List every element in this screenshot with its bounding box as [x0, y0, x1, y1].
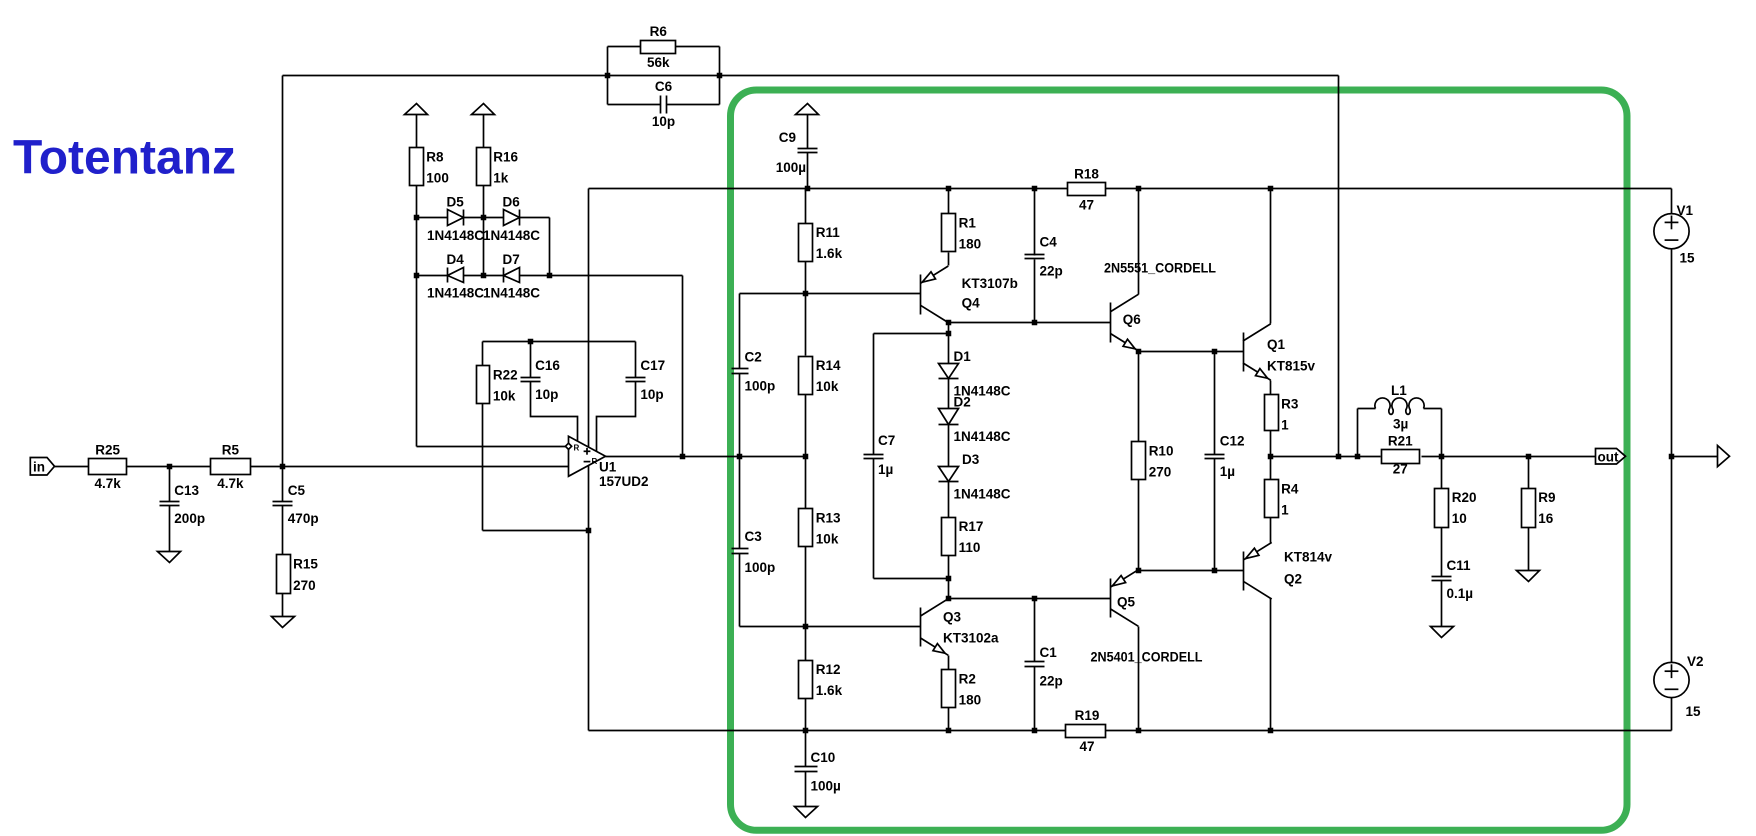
wire R5 node up to feedback rail: [282, 76, 284, 467]
wire from C6: [667, 104, 720, 106]
svg-text:157UD2: 157UD2: [599, 474, 649, 489]
wire C2 to output node: [739, 374, 741, 457]
ground at R9: [1517, 571, 1540, 582]
svg-text:10p: 10p: [652, 114, 675, 129]
resistor R14: [799, 357, 842, 395]
wire rail to C10: [805, 731, 807, 767]
svg-text:out: out: [1598, 450, 1619, 465]
capacitor C7: [864, 433, 896, 477]
svg-text:10p: 10p: [535, 387, 558, 402]
resistor R3: [1265, 395, 1299, 433]
wire down to C2: [739, 294, 741, 369]
wire D4 to D7: [464, 275, 504, 277]
wire node to R20: [1441, 457, 1443, 489]
node Q6 emitter: [1136, 349, 1142, 355]
svg-text:10k: 10k: [816, 379, 839, 394]
svg-text:R1: R1: [959, 215, 977, 230]
wire left supply drop: [588, 189, 590, 731]
svg-text:22p: 22p: [1040, 674, 1063, 689]
node C7 top tap: [946, 331, 952, 337]
transistor Q6 2N5551: [1111, 294, 1139, 351]
resistor R5: [211, 442, 251, 491]
wire D5 to D6: [464, 217, 504, 219]
wire to C17: [635, 342, 637, 378]
svg-text:15: 15: [1680, 251, 1696, 266]
wire in port to R25: [55, 466, 89, 468]
wire Q2 collector to bottom rail: [1270, 599, 1272, 731]
svg-text:110: 110: [959, 540, 981, 555]
svg-text:R25: R25: [95, 442, 120, 457]
wire R17 to Q3 collector node: [948, 556, 950, 599]
wire clamp down to opamp output: [682, 276, 684, 457]
node L1 right/R20: [1439, 454, 1445, 460]
wire from R6: [676, 46, 720, 48]
svg-text:Q3: Q3: [943, 610, 962, 625]
voltage source V2: [1654, 654, 1704, 719]
wire from D6: [520, 217, 550, 219]
node C2-C3/output: [737, 454, 743, 460]
wire rail to R1: [948, 189, 950, 214]
svg-text:180: 180: [959, 693, 982, 708]
wire R22 bottom to supply drop: [483, 530, 589, 532]
node R3-R4 output: [1268, 454, 1274, 460]
svg-text:56k: 56k: [647, 55, 670, 70]
svg-text:100µ: 100µ: [811, 779, 841, 794]
wire R6-C6 left side: [607, 47, 609, 105]
svg-text:C10: C10: [811, 750, 836, 765]
capacitor C13: [160, 483, 206, 526]
svg-text:R21: R21: [1388, 434, 1413, 449]
wire C7 bottom side: [873, 459, 875, 579]
inductor L1: [1375, 383, 1424, 432]
wire diode clamp row: [550, 275, 683, 277]
wire Q3 collector to Q5 base: [949, 598, 1111, 600]
wire C13 to ground: [169, 506, 171, 552]
voltage source V1: [1654, 203, 1695, 266]
svg-text:R6: R6: [650, 24, 668, 39]
svg-text:L1: L1: [1391, 383, 1407, 398]
wire Q4 base row: [740, 293, 921, 295]
svg-text:180: 180: [959, 237, 982, 252]
ground at C13: [158, 552, 181, 563]
svg-text:100µ: 100µ: [776, 160, 806, 175]
wire R14 to output node: [805, 395, 807, 457]
svg-text:C17: C17: [640, 358, 665, 373]
capacitor C3: [732, 529, 776, 575]
svg-text:1N4148C: 1N4148C: [954, 429, 1011, 444]
svg-text:D4: D4: [447, 252, 465, 267]
diode D4: [427, 252, 484, 300]
node C12 bottom: [1212, 568, 1218, 574]
svg-text:100p: 100p: [745, 560, 776, 575]
resistor R6: [641, 24, 676, 70]
wire node to R9: [1528, 457, 1530, 489]
svg-text:R8: R8: [426, 149, 444, 164]
svg-text:R: R: [574, 443, 580, 452]
resistor R16: [477, 148, 519, 186]
wire R25 to R5: [127, 466, 211, 468]
svg-text:10p: 10p: [640, 387, 663, 402]
capacitor C9: [798, 149, 818, 153]
wire L1 right leg: [1441, 409, 1443, 457]
resistor R22: [477, 366, 518, 404]
svg-text:100p: 100p: [745, 379, 776, 394]
wire C7 to R17 node: [874, 578, 949, 580]
resistor R19: [1066, 708, 1106, 754]
wire Q5 node to Q2 base: [1139, 570, 1244, 572]
capacitor C17: [626, 358, 666, 402]
svg-text:KT815v: KT815v: [1267, 359, 1316, 374]
capacitor C6: [652, 79, 675, 129]
svg-text:10: 10: [1452, 511, 1467, 526]
svg-text:KT3107b: KT3107b: [962, 276, 1018, 291]
resistor R20: [1435, 489, 1477, 528]
power flag above R8: [405, 104, 428, 115]
capacitor C1: [1025, 645, 1063, 689]
svg-text:4.7k: 4.7k: [217, 476, 244, 491]
wire L1 right stub: [1424, 408, 1442, 410]
node feedback tap: [1336, 454, 1342, 460]
svg-text:10k: 10k: [816, 532, 839, 547]
node C1 rail: [1032, 728, 1038, 734]
wire R4 to output node: [1270, 457, 1272, 481]
svg-text:270: 270: [1149, 465, 1172, 480]
ground at R15: [272, 617, 295, 628]
svg-text:U1: U1: [599, 460, 617, 475]
wire R6-C6 right side: [719, 47, 721, 105]
svg-text:1µ: 1µ: [1220, 464, 1235, 479]
wire to R6: [608, 46, 641, 48]
op-amp U1 157UD2: [565, 436, 648, 489]
wire L1 left leg: [1357, 409, 1359, 457]
resistor R1: [942, 214, 982, 252]
svg-text:R5: R5: [222, 442, 240, 457]
svg-text:470p: 470p: [288, 511, 319, 526]
node C16 top: [528, 339, 534, 345]
node C13 tap: [167, 464, 173, 470]
wire R5 to opamp inverting input: [251, 466, 569, 468]
svg-text:R20: R20: [1452, 490, 1477, 505]
svg-text:R3: R3: [1281, 396, 1299, 411]
node D4 row left: [414, 273, 420, 279]
node R9 tap: [1526, 454, 1532, 460]
node D4-D7: [481, 273, 487, 279]
green highlight box around output stage: [731, 90, 1628, 830]
node R12/C10 rail: [803, 728, 809, 734]
wire output node to R21: [1271, 456, 1381, 458]
wire C3 down: [739, 554, 741, 627]
node C4 rail: [1032, 186, 1038, 192]
wire to C16: [530, 342, 532, 378]
capacitor C10: [795, 750, 841, 794]
resistor R2: [942, 670, 982, 708]
wire power flag to C9: [807, 115, 809, 149]
svg-text:C11: C11: [1447, 558, 1472, 573]
svg-text:4.7k: 4.7k: [95, 476, 122, 491]
svg-text:1.6k: 1.6k: [816, 683, 843, 698]
wire D2 to D3: [948, 424, 950, 467]
transistor Q2 KT814v: [1244, 542, 1272, 599]
svg-text:R4: R4: [1281, 481, 1299, 496]
wire R10 to Q5 emitter node: [1138, 480, 1140, 571]
node Q6 collector rail: [1136, 186, 1142, 192]
svg-text:C16: C16: [535, 358, 560, 373]
diode D1: [939, 349, 1011, 399]
svg-text:D6: D6: [503, 195, 521, 210]
diode D6: [483, 195, 540, 243]
svg-text:1: 1: [1281, 503, 1289, 518]
in port: [30, 458, 54, 476]
svg-text:Q6: Q6: [1123, 312, 1142, 327]
svg-text:R16: R16: [493, 149, 518, 164]
node R13-R12/Q3 base: [803, 624, 809, 630]
wire C16 to opamp comp pin: [531, 382, 578, 442]
svg-text:C2: C2: [745, 350, 762, 365]
node clamp/output: [680, 454, 686, 460]
wire R1 to Q4 emitter: [948, 253, 950, 266]
svg-text:C12: C12: [1220, 434, 1245, 449]
svg-text:D5: D5: [447, 195, 465, 210]
svg-text:C4: C4: [1040, 235, 1058, 250]
svg-text:1N4148C: 1N4148C: [483, 285, 540, 300]
svg-text:KT3102a: KT3102a: [943, 631, 999, 646]
node R10/Q5 emitter: [1136, 568, 1142, 574]
svg-text:270: 270: [293, 578, 316, 593]
wire C1 to bottom rail: [1034, 667, 1036, 731]
svg-text:KT814v: KT814v: [1284, 550, 1333, 565]
node C9 rail: [805, 186, 811, 192]
resistor R12: [799, 661, 843, 699]
resistor R11: [799, 224, 843, 262]
ground at C10: [795, 807, 818, 818]
svg-text:in: in: [33, 459, 45, 474]
capacitor C11: [1432, 558, 1474, 601]
node R16/D5-D6: [481, 215, 487, 221]
out port: [1596, 449, 1626, 465]
node R8/D5: [414, 215, 420, 221]
resistor R8: [410, 148, 449, 186]
svg-text:D3: D3: [962, 452, 980, 467]
wire bottom rail: [589, 730, 1066, 732]
svg-text:D1: D1: [954, 349, 972, 364]
wire C11 to ground: [1441, 581, 1443, 627]
svg-text:R18: R18: [1074, 167, 1099, 182]
svg-text:47: 47: [1079, 739, 1094, 754]
svg-text:R14: R14: [816, 358, 841, 373]
wire R22 C16 C17 top: [483, 341, 636, 343]
wire Q3 base row: [740, 626, 921, 628]
svg-text:R22: R22: [493, 367, 518, 382]
svg-text:C3: C3: [745, 529, 763, 544]
svg-text:C1: C1: [1040, 645, 1058, 660]
svg-text:R11: R11: [816, 225, 841, 240]
wire R15 to ground: [282, 593, 284, 617]
svg-text:V1: V1: [1677, 203, 1694, 218]
svg-text:2N5551_CORDELL: 2N5551_CORDELL: [1104, 261, 1216, 276]
svg-text:1N4148C: 1N4148C: [427, 285, 484, 300]
svg-text:1k: 1k: [493, 171, 509, 186]
svg-text:Q2: Q2: [1284, 572, 1302, 587]
node C7 bottom: [946, 576, 952, 582]
svg-text:C9: C9: [779, 130, 796, 145]
wire R16 down to diode row: [483, 186, 485, 276]
wire to D1: [948, 334, 950, 364]
wire C9 to rail: [807, 153, 809, 189]
wire D1 to D2: [948, 379, 950, 409]
wire V1 to V2: [1671, 249, 1673, 663]
diode D5: [427, 195, 484, 243]
svg-text:R2: R2: [959, 671, 976, 686]
diode D2: [939, 395, 1011, 445]
svg-text:100: 100: [426, 171, 449, 186]
svg-text:10k: 10k: [493, 389, 516, 404]
wire Q6 collector to rail: [1138, 189, 1140, 295]
node R22 bottom: [586, 528, 592, 534]
svg-text:C5: C5: [288, 483, 306, 498]
wire output node to R13: [805, 457, 807, 510]
svg-text:2N5401_CORDELL: 2N5401_CORDELL: [1091, 650, 1203, 665]
power flag above R16: [472, 104, 495, 115]
transistor Q5 2N5401: [1111, 570, 1139, 627]
node Q1 collector rail: [1268, 186, 1274, 192]
svg-text:R15: R15: [293, 557, 318, 572]
wire Q6 emitter to Q1 base: [1139, 351, 1244, 353]
resistor R10: [1132, 442, 1174, 480]
svg-text:C6: C6: [655, 79, 673, 94]
wire node to C1: [1034, 599, 1036, 662]
wire L1 left stub: [1358, 408, 1376, 410]
svg-text:15: 15: [1686, 704, 1702, 719]
transistor Q4 KT3107b: [921, 266, 949, 323]
wire node to C12: [1214, 352, 1216, 455]
capacitor C2: [732, 350, 776, 394]
node supply midpoint: [1669, 454, 1675, 460]
capacitor C5: [273, 483, 319, 526]
svg-text:1N4148C: 1N4148C: [483, 228, 540, 243]
wire rail to V1: [1671, 189, 1673, 214]
svg-text:D7: D7: [503, 252, 520, 267]
svg-text:22p: 22p: [1040, 264, 1063, 279]
wire node to R10: [1138, 352, 1140, 442]
node R5/C5/feedback: [280, 464, 286, 470]
svg-text:D2: D2: [954, 395, 971, 410]
wire Q1 collector to rail: [1270, 189, 1272, 324]
svg-text:R: R: [592, 457, 598, 466]
capacitor C16: [521, 358, 561, 402]
node feedback/R6 left: [605, 73, 611, 79]
power flag above C9: [796, 104, 819, 115]
wire output node to C3: [739, 457, 741, 549]
wire to opamp noninverting input: [417, 446, 569, 448]
wire opamp output: [606, 456, 806, 458]
svg-text:Totentanz: Totentanz: [13, 132, 236, 185]
wire D3 to R17: [948, 482, 950, 518]
svg-text:C13: C13: [174, 483, 199, 498]
wire C17 to opamp comp pin: [597, 382, 636, 452]
wire Q5 collector to bottom rail: [1138, 627, 1140, 731]
svg-text:R17: R17: [959, 519, 984, 534]
node Q2 collector rail: [1268, 728, 1274, 734]
svg-text:R19: R19: [1075, 708, 1100, 723]
wire C4 to Q6 base row: [1034, 260, 1036, 323]
svg-text:47: 47: [1079, 198, 1094, 213]
wire Q4 collector node: [948, 323, 950, 334]
node R14-R13/output: [803, 454, 809, 460]
svg-text:R10: R10: [1149, 443, 1174, 458]
transistor Q1 KT815v: [1243, 324, 1271, 381]
wire R11 to R14: [805, 261, 807, 356]
wire R13 to Q3 base node: [805, 547, 807, 627]
node C4 bottom: [1032, 320, 1038, 326]
resistor R25: [89, 442, 127, 491]
svg-text:R13: R13: [816, 510, 841, 525]
wire to D5: [417, 217, 448, 219]
svg-text:Q4: Q4: [962, 296, 981, 311]
wire Q1 emitter to R3: [1270, 381, 1272, 395]
wire from D7: [520, 275, 550, 277]
svg-text:1N4148C: 1N4148C: [954, 487, 1011, 502]
svg-text:C7: C7: [878, 433, 895, 448]
wire C12 to Q2 base row: [1214, 459, 1216, 571]
node R11/R14/Q4 base: [803, 291, 809, 297]
node Q4 collector: [946, 320, 952, 326]
wire feedback down to output: [1338, 76, 1340, 457]
node Q5 collector rail: [1136, 728, 1142, 734]
wire to C6: [608, 104, 661, 106]
C9 labels: [776, 130, 806, 175]
output probe arrow: [1718, 446, 1730, 467]
wire rail to C4: [1034, 189, 1036, 256]
wire to R12: [805, 627, 807, 661]
svg-text:Q5: Q5: [1117, 595, 1136, 610]
wire rail to R11: [805, 189, 807, 224]
resistor R18: [1068, 167, 1106, 213]
transistor Q3 KT3102a: [921, 599, 949, 656]
wire Q3 emitter to R2: [948, 656, 950, 670]
wire C7 top side: [873, 334, 875, 455]
svg-text:200p: 200p: [174, 511, 205, 526]
resistor R4: [1265, 480, 1299, 518]
wire C10 to ground: [805, 772, 807, 807]
wire C5 to R15: [282, 506, 284, 555]
resistor R13: [799, 509, 842, 547]
wire V2 to bottom rail: [1671, 698, 1673, 731]
wire R3 to output node: [1270, 431, 1272, 457]
svg-text:0.1µ: 0.1µ: [1447, 586, 1474, 601]
svg-text:1N4148C: 1N4148C: [427, 228, 484, 243]
svg-text:1.6k: 1.6k: [816, 246, 843, 261]
svg-text:R9: R9: [1538, 490, 1555, 505]
svg-text:1: 1: [1281, 418, 1289, 433]
wire R2 to bottom rail: [948, 708, 950, 731]
wire R12 to bottom rail: [805, 697, 807, 731]
resistor R15: [277, 555, 319, 594]
wire node to C13: [169, 467, 171, 502]
wire bottom rail right of R19: [1106, 730, 1672, 732]
node L1 left: [1355, 454, 1361, 460]
node Q3 collector: [946, 596, 952, 602]
capacitor C12: [1205, 434, 1245, 480]
diode D3: [939, 452, 1011, 502]
wire to R22: [482, 342, 484, 366]
wire R21 to out port: [1422, 456, 1596, 458]
svg-text:3µ: 3µ: [1393, 417, 1408, 432]
resistor R17: [942, 518, 984, 556]
node R6 right: [717, 73, 723, 79]
svg-text:16: 16: [1538, 511, 1554, 526]
wire positive rail: [589, 188, 1068, 190]
resistor R21: [1382, 434, 1420, 477]
